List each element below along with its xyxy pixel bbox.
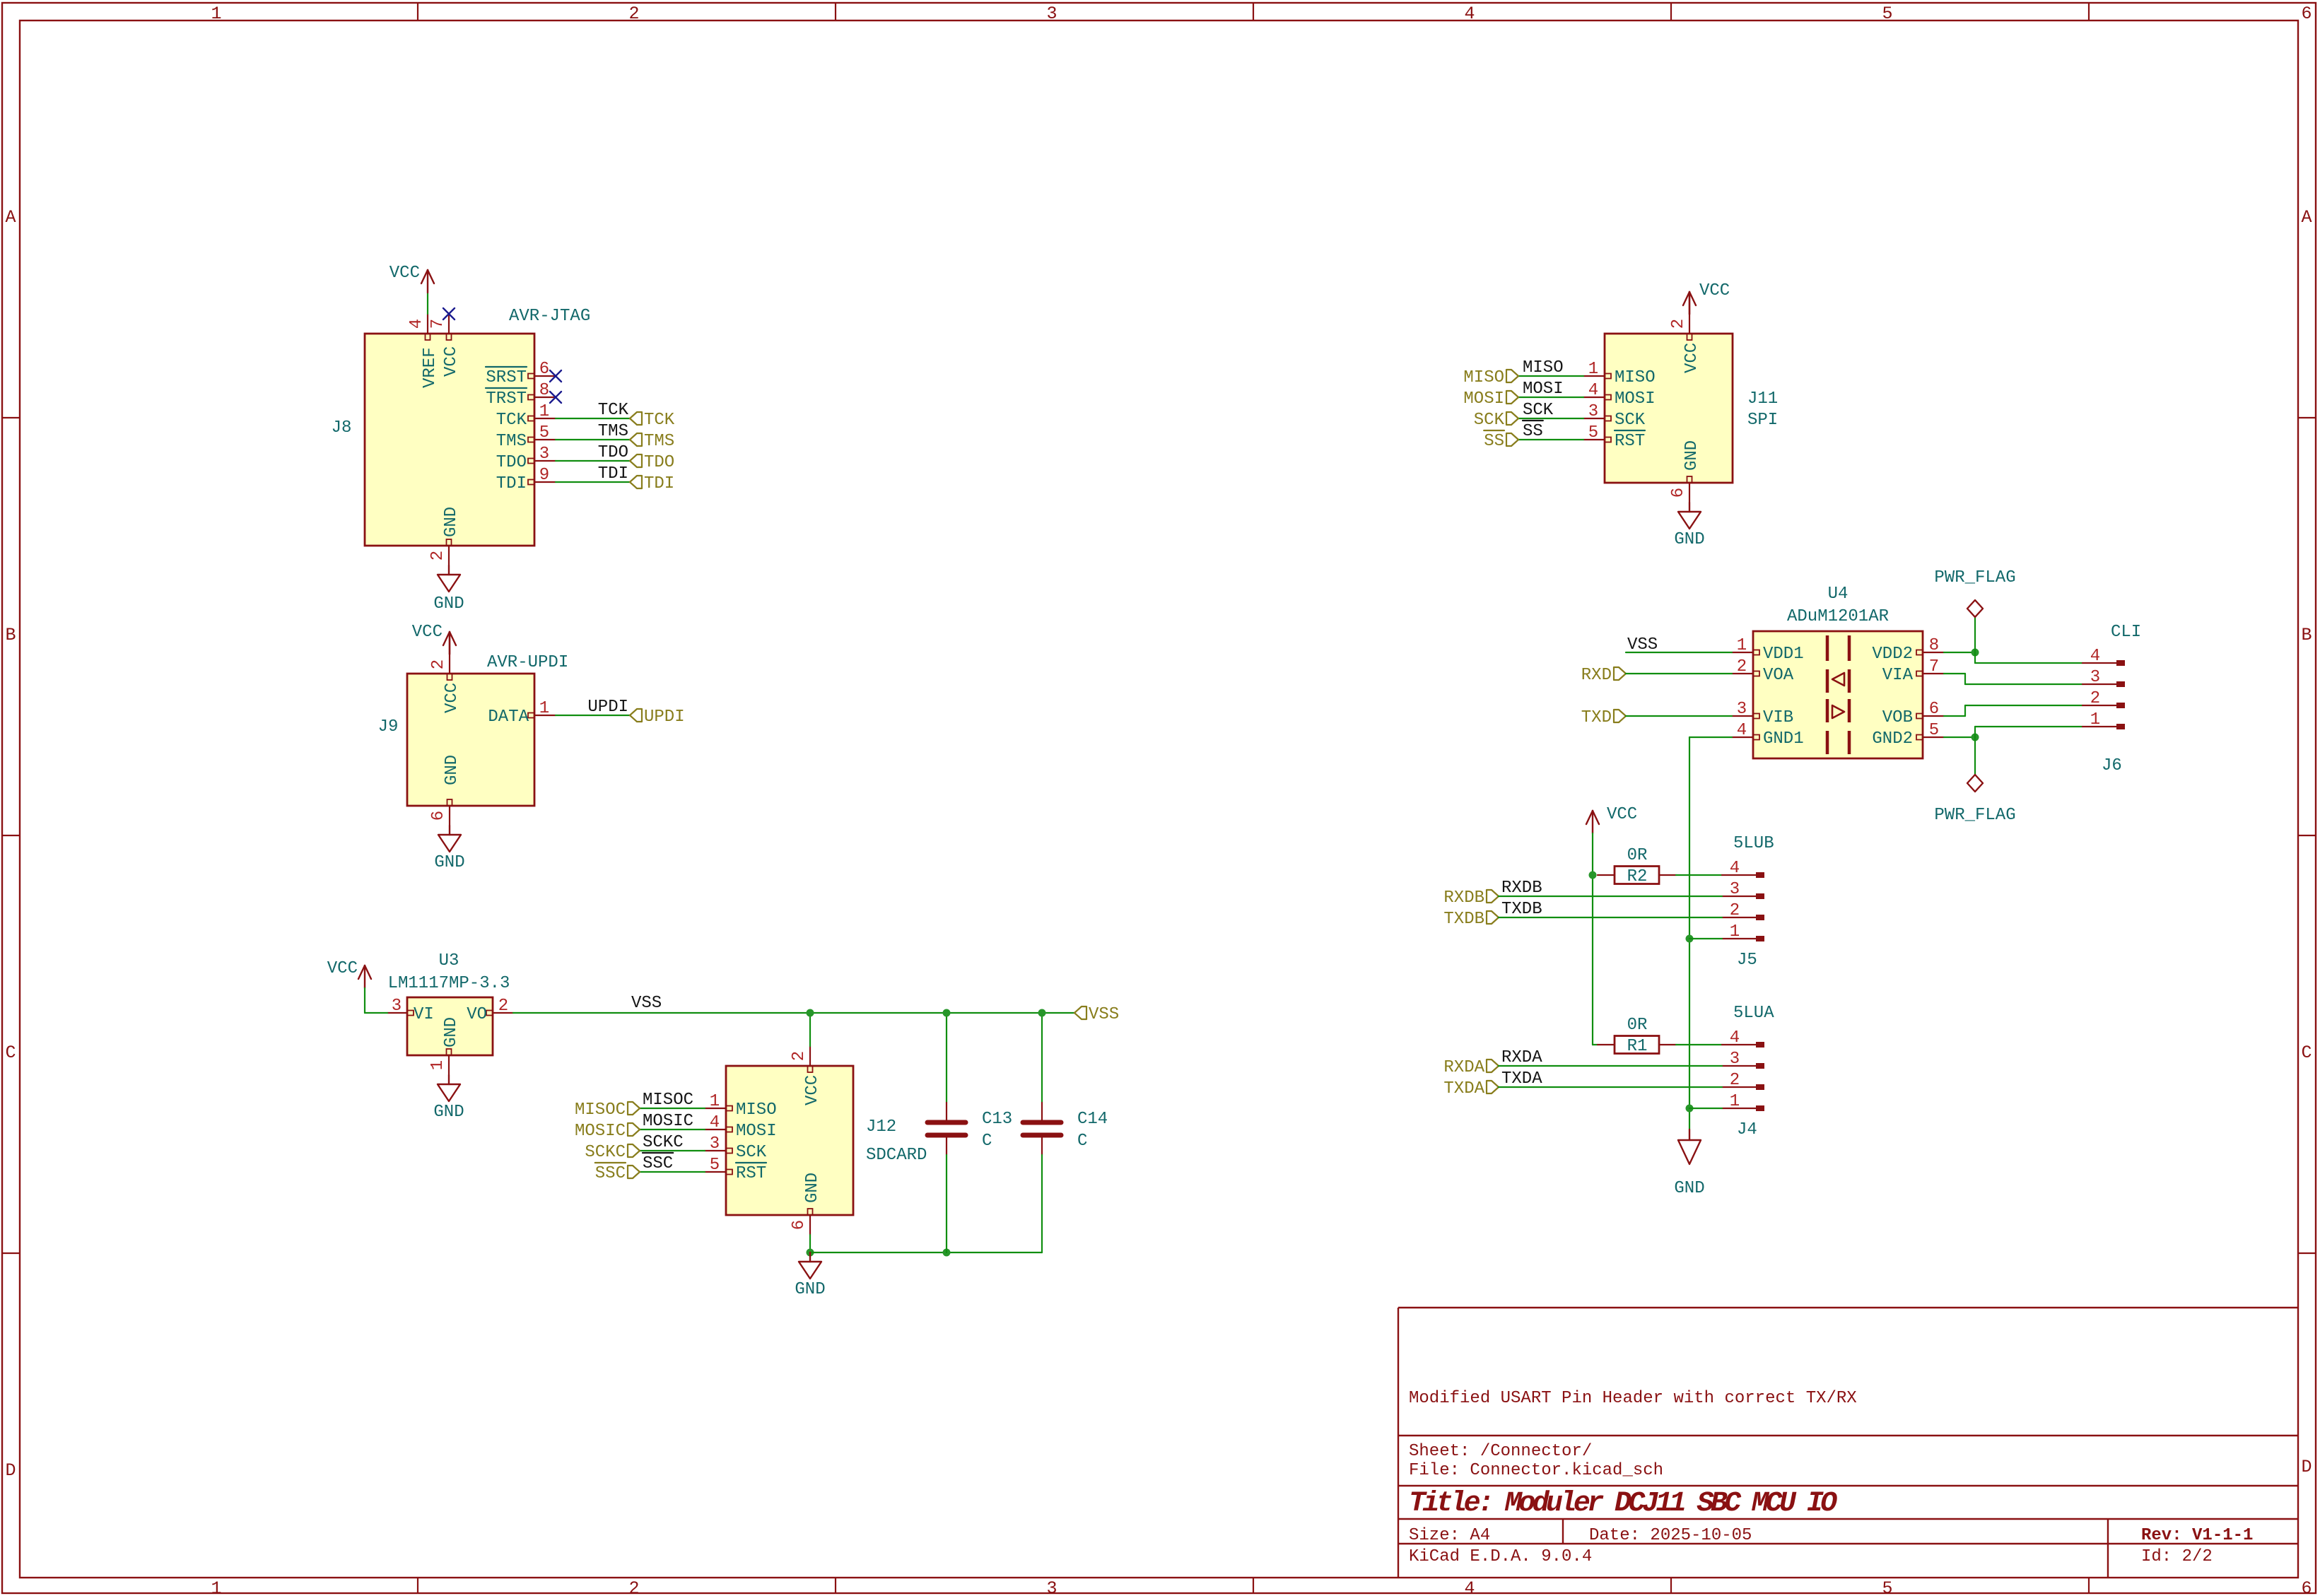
svg-text:0R: 0R	[1627, 846, 1648, 865]
U4 isolation barrier graphics	[1827, 635, 1849, 754]
svg-text:R1: R1	[1627, 1037, 1648, 1056]
svg-text:TXDA: TXDA	[1501, 1069, 1542, 1089]
global label SCK (J11)	[1506, 412, 1518, 425]
connector J8 AVR-JTAG	[332, 307, 591, 546]
svg-text:VDD2: VDD2	[1872, 645, 1913, 664]
svg-text:MISO: MISO	[1463, 368, 1504, 387]
J11 pin 6 GND	[1669, 440, 1701, 503]
svg-text:1: 1	[428, 1060, 447, 1070]
power flag symbol (bottom)	[1934, 737, 2015, 825]
global label MISO (J11)	[1506, 370, 1518, 382]
svg-text:TXD: TXD	[1581, 708, 1612, 727]
global label RXD	[1614, 667, 1626, 680]
connector J4 5LUA	[1733, 1004, 1774, 1139]
svg-text:J12: J12	[866, 1117, 896, 1137]
title block	[1398, 1308, 2298, 1578]
svg-text:TDI: TDI	[496, 474, 527, 493]
svg-text:7: 7	[1929, 657, 1939, 676]
ground symbol (J4 rail)	[1674, 1129, 1704, 1198]
svg-text:D: D	[2301, 1457, 2312, 1477]
svg-text:SCKC: SCKC	[585, 1143, 626, 1162]
svg-text:TCK: TCK	[644, 411, 675, 430]
svg-text:1: 1	[1588, 360, 1598, 379]
svg-text:3: 3	[1046, 1578, 1057, 1596]
U3 pin 3 VI	[387, 997, 434, 1024]
svg-text:GND: GND	[433, 1103, 464, 1122]
global label TXDA	[1487, 1081, 1499, 1093]
J4 pin 3	[1722, 1050, 1764, 1069]
wire U4 GND1 down	[1689, 737, 1732, 738]
svg-text:U4: U4	[1828, 585, 1849, 604]
svg-text:VIA: VIA	[1882, 666, 1914, 685]
svg-text:VCC: VCC	[442, 346, 461, 377]
svg-text:1: 1	[211, 1578, 221, 1596]
svg-text:5: 5	[1882, 1578, 1892, 1596]
svg-text:SS: SS	[1523, 422, 1543, 441]
U4 pin 3 VIB	[1732, 700, 1793, 727]
svg-text:3: 3	[1588, 402, 1598, 421]
svg-text:1: 1	[2090, 710, 2100, 729]
svg-text:2: 2	[628, 1578, 639, 1596]
svg-text:C14: C14	[1077, 1110, 1108, 1129]
J11 pin 3 SCK	[1583, 402, 1646, 430]
svg-text:5: 5	[1588, 423, 1598, 442]
svg-text:TMS: TMS	[598, 422, 628, 441]
global label TDI	[630, 476, 642, 488]
svg-text:4: 4	[2090, 647, 2100, 666]
svg-text:TDI: TDI	[598, 464, 628, 483]
J11 pin 4 MOSI	[1583, 381, 1656, 409]
junction VSS / J12	[807, 1009, 814, 1017]
svg-text:Size: A4: Size: A4	[1409, 1526, 1490, 1545]
global label MOSI (J11)	[1506, 391, 1518, 404]
svg-text:3: 3	[392, 997, 402, 1016]
svg-text:1: 1	[211, 4, 221, 24]
svg-text:1: 1	[710, 1092, 720, 1111]
svg-text:LM1117MP-3.3: LM1117MP-3.3	[388, 974, 510, 993]
no-connect X on J8 pin 7	[443, 308, 455, 319]
J6 pin 4	[2082, 647, 2125, 666]
svg-text:A: A	[2301, 207, 2312, 228]
wire TXDA	[1499, 1086, 1722, 1088]
svg-text:Modified USART Pin Header with: Modified USART Pin Header with correct T…	[1409, 1389, 1857, 1408]
svg-text:2: 2	[1730, 901, 1740, 920]
hier label SCKC	[628, 1144, 640, 1157]
svg-text:GND: GND	[1682, 440, 1701, 471]
power symbol VCC (U3)	[327, 959, 371, 988]
svg-text:TXDB: TXDB	[1443, 910, 1484, 929]
svg-text:C: C	[982, 1132, 992, 1151]
svg-text:CLI: CLI	[2111, 623, 2141, 642]
svg-text:ADuM1201AR: ADuM1201AR	[1787, 607, 1889, 626]
wire TDO	[556, 460, 630, 462]
svg-text:B: B	[5, 625, 16, 645]
svg-text:MOSI: MOSI	[1463, 389, 1504, 409]
svg-text:File: Connector.kicad_sch: File: Connector.kicad_sch	[1409, 1461, 1663, 1480]
svg-text:PWR_FLAG: PWR_FLAG	[1934, 568, 2015, 587]
svg-text:VSS: VSS	[1089, 1005, 1119, 1024]
J12 pin 6 GND	[790, 1173, 822, 1235]
svg-text:SSC: SSC	[595, 1164, 626, 1183]
svg-text:5: 5	[1929, 721, 1939, 740]
svg-text:9: 9	[539, 466, 549, 485]
wire MOSIC	[640, 1129, 705, 1130]
junction VDD2 / PWR_FLAG	[1972, 649, 1979, 657]
J6 pin 2	[2082, 689, 2125, 708]
wire GND bus to C13 C14	[810, 1252, 1042, 1253]
svg-text:TDO: TDO	[644, 453, 674, 472]
wire GND2 to junction	[1944, 737, 1975, 738]
svg-text:MISO: MISO	[1615, 368, 1656, 387]
svg-text:2: 2	[628, 4, 639, 24]
J4 pin 2	[1722, 1071, 1764, 1090]
svg-text:1: 1	[1730, 922, 1740, 941]
junction GND / J5 pin 1	[1686, 935, 1694, 943]
svg-text:TXDB: TXDB	[1501, 900, 1542, 919]
connector J5 5LUB	[1733, 834, 1774, 970]
svg-text:Sheet: /Connector/: Sheet: /Connector/	[1409, 1442, 1592, 1461]
svg-text:SS: SS	[1484, 432, 1504, 451]
wire TMS	[556, 439, 630, 440]
global label RXDB	[1487, 890, 1499, 903]
svg-text:3: 3	[710, 1134, 720, 1154]
svg-text:C: C	[2301, 1043, 2312, 1063]
svg-text:TMS: TMS	[496, 432, 527, 451]
J8 pin 2 GND	[428, 507, 461, 565]
svg-text:2: 2	[790, 1051, 809, 1061]
svg-text:SCK: SCK	[1523, 401, 1554, 420]
capacitor C14	[1023, 1013, 1108, 1252]
svg-text:TCK: TCK	[598, 401, 629, 420]
svg-text:VO: VO	[467, 1005, 487, 1024]
svg-text:B: B	[2301, 625, 2312, 645]
regulator U3 LM1117MP-3.3	[388, 951, 510, 1055]
svg-text:5LUA: 5LUA	[1733, 1004, 1774, 1023]
svg-text:SDCARD: SDCARD	[866, 1146, 927, 1165]
svg-text:MISOC: MISOC	[575, 1101, 626, 1120]
svg-text:SRST: SRST	[486, 368, 527, 387]
U4 pin 8 VDD2	[1872, 636, 1944, 664]
J5 pin 4	[1722, 859, 1764, 878]
svg-text:RXDA: RXDA	[1443, 1058, 1484, 1077]
wire TXDB	[1499, 917, 1722, 918]
wire VSS to U4 pin 1	[1626, 652, 1732, 653]
power symbol VCC (J8)	[389, 264, 434, 293]
svg-text:D: D	[5, 1460, 16, 1481]
svg-text:TXDA: TXDA	[1443, 1079, 1484, 1098]
power flag symbol (top)	[1934, 568, 2015, 652]
svg-text:VREF: VREF	[421, 347, 440, 388]
svg-text:C: C	[5, 1043, 16, 1063]
svg-text:Rev: V1-1-1: Rev: V1-1-1	[2141, 1526, 2253, 1545]
svg-text:Title: Moduler DCJ11 SBC MCU I: Title: Moduler DCJ11 SBC MCU IO	[1409, 1488, 1837, 1520]
J8 pin 6 SRST (no connect)	[486, 360, 556, 387]
svg-text:6: 6	[429, 811, 448, 821]
svg-text:2: 2	[498, 997, 508, 1016]
svg-text:U3: U3	[439, 951, 459, 970]
svg-text:J6: J6	[2102, 756, 2122, 775]
wire R2 to J5 pin 4	[1676, 874, 1722, 876]
power symbol VCC (rail)	[1586, 805, 1637, 833]
svg-text:RXDB: RXDB	[1501, 879, 1542, 898]
hier label MOSIC	[628, 1123, 640, 1136]
svg-text:UPDI: UPDI	[644, 708, 685, 727]
connector J6 CLI	[2102, 623, 2141, 775]
hier label MISOC	[628, 1102, 640, 1115]
svg-text:J4: J4	[1737, 1120, 1757, 1139]
no-connect X on J8 pin 6	[550, 370, 561, 382]
svg-text:MOSI: MOSI	[1615, 389, 1656, 409]
wire GND2 to J6 pin 1	[1974, 727, 1976, 737]
junction VSS / C13	[943, 1009, 951, 1017]
J8 pin 3 TDO	[496, 445, 556, 472]
svg-text:GND: GND	[442, 1017, 461, 1048]
svg-text:8: 8	[1929, 636, 1939, 655]
no-connect X on J8 pin 8	[550, 392, 561, 403]
svg-text:KiCad E.D.A. 9.0.4: KiCad E.D.A. 9.0.4	[1409, 1547, 1592, 1566]
J4 pin 1	[1722, 1092, 1764, 1111]
svg-text:4: 4	[1730, 859, 1740, 878]
wire TXD	[1626, 715, 1732, 717]
U4 pin 6 VOB	[1882, 700, 1944, 727]
svg-text:VCC: VCC	[412, 623, 443, 642]
svg-text:3: 3	[539, 445, 549, 464]
wire R1 to J4 pin 4	[1676, 1044, 1722, 1045]
svg-text:2: 2	[1669, 319, 1688, 329]
svg-text:4: 4	[1737, 721, 1747, 740]
global label UPDI	[630, 709, 642, 722]
wire SSC	[640, 1171, 705, 1173]
wire MISO (J11)	[1518, 375, 1583, 377]
wire RXDA	[1499, 1065, 1722, 1067]
ground symbol (J11)	[1674, 503, 1704, 549]
ground symbol (J8)	[433, 565, 464, 614]
J6 pin 1	[2082, 710, 2125, 729]
svg-text:3: 3	[1730, 1050, 1740, 1069]
junction GND2 / PWR_FLAG	[1972, 734, 1979, 741]
svg-text:1: 1	[1737, 636, 1747, 655]
J8 pin 9 TDI	[496, 466, 556, 493]
svg-text:1: 1	[539, 402, 549, 421]
ground symbol (J12)	[795, 1252, 825, 1299]
wire TDI	[556, 481, 630, 483]
wire VCC to U3 VI	[364, 988, 365, 1013]
wire VCC to J8 pin 4	[427, 293, 428, 314]
U4 pin 1 VDD1	[1732, 636, 1804, 664]
wire RXD	[1626, 673, 1732, 674]
svg-text:4: 4	[1588, 381, 1598, 400]
wire TCK	[556, 418, 630, 419]
svg-text:6: 6	[2301, 1578, 2312, 1596]
svg-text:7: 7	[428, 319, 447, 329]
J11 pin 1 MISO	[1583, 360, 1656, 387]
svg-text:J8: J8	[332, 418, 352, 438]
J9 pin 1 DATA	[488, 699, 556, 727]
J12 pin 3 SCK	[705, 1134, 767, 1162]
svg-text:5: 5	[710, 1156, 720, 1175]
J12 pin 1 MISO	[705, 1092, 777, 1120]
U4 pin 4 GND1	[1732, 721, 1804, 749]
J8 pin 8 TRST (no connect)	[486, 381, 556, 409]
svg-text:MOSIC: MOSIC	[643, 1112, 693, 1131]
svg-text:R2: R2	[1627, 867, 1648, 886]
svg-text:TDO: TDO	[598, 443, 628, 462]
J9 pin 6 GND	[429, 755, 462, 826]
J12 pin 5 RST	[705, 1156, 766, 1183]
svg-text:VDD1: VDD1	[1763, 645, 1804, 664]
svg-text:TDI: TDI	[644, 474, 674, 493]
connector J9 AVR-UPDI	[378, 653, 569, 806]
svg-text:VI: VI	[414, 1005, 434, 1024]
wire UPDI	[556, 715, 630, 716]
junction J12 GND	[807, 1249, 814, 1257]
connector J12 SDCARD	[726, 1066, 927, 1215]
capacitor C13	[927, 1013, 1012, 1252]
svg-text:PWR_FLAG: PWR_FLAG	[1934, 806, 2015, 825]
global label TDO	[630, 454, 642, 467]
wire SS (J11)	[1518, 439, 1583, 440]
svg-text:1: 1	[1730, 1092, 1740, 1111]
U3 pin 1 GND	[428, 1017, 461, 1075]
svg-text:3: 3	[2090, 668, 2100, 687]
svg-text:8: 8	[539, 381, 549, 400]
resistor R1 0R	[1598, 1016, 1676, 1056]
svg-text:SPI: SPI	[1747, 411, 1778, 430]
J12 pin 2 VCC	[790, 1046, 822, 1105]
svg-text:VOA: VOA	[1763, 666, 1794, 685]
svg-text:C13: C13	[982, 1110, 1012, 1129]
svg-text:SCK: SCK	[1615, 411, 1646, 430]
svg-text:4: 4	[1730, 1028, 1740, 1048]
global label RXDA	[1487, 1060, 1499, 1072]
svg-text:4: 4	[1464, 1578, 1475, 1596]
svg-text:RXDA: RXDA	[1501, 1048, 1542, 1067]
wire SCKC	[640, 1150, 705, 1151]
svg-text:GND: GND	[795, 1280, 825, 1299]
wire VOB to J6 pin 2	[1944, 715, 1965, 717]
J12 pin 4 MOSI	[705, 1113, 777, 1141]
svg-text:Date: 2025-10-05: Date: 2025-10-05	[1589, 1526, 1752, 1545]
svg-text:VCC: VCC	[1607, 805, 1637, 824]
resistor R2 0R	[1598, 846, 1676, 886]
svg-text:GND: GND	[433, 594, 464, 614]
isolator U4 ADuM1201AR	[1753, 585, 1923, 758]
wire VIA to J6 pin 3	[1944, 673, 1965, 674]
svg-text:6: 6	[2301, 4, 2312, 24]
svg-text:4: 4	[1464, 4, 1475, 24]
svg-text:GND: GND	[1674, 530, 1704, 549]
connector J11 SPI	[1605, 334, 1778, 483]
svg-text:MOSIC: MOSIC	[575, 1122, 626, 1141]
svg-text:VSS: VSS	[1627, 635, 1658, 655]
global label TXD	[1614, 710, 1626, 722]
svg-text:RXDB: RXDB	[1443, 888, 1484, 908]
svg-text:RST: RST	[1615, 432, 1645, 451]
svg-text:TDO: TDO	[496, 453, 527, 472]
svg-text:2: 2	[1730, 1071, 1740, 1090]
power symbol VCC (J9)	[412, 623, 456, 655]
J8 pin 1 TCK	[496, 402, 556, 430]
J11 pin 5 RST	[1583, 423, 1645, 451]
svg-text:VOB: VOB	[1882, 708, 1913, 727]
svg-text:4: 4	[407, 319, 426, 329]
svg-text:UPDI: UPDI	[587, 698, 628, 717]
svg-text:VIB: VIB	[1763, 708, 1793, 727]
svg-text:6: 6	[539, 360, 549, 379]
global label SS (J11)	[1506, 433, 1518, 446]
svg-text:MOSI: MOSI	[1523, 380, 1564, 399]
svg-text:SCK: SCK	[736, 1143, 767, 1162]
wire J12 GND down	[809, 1235, 811, 1252]
svg-text:AVR-JTAG: AVR-JTAG	[509, 307, 590, 326]
svg-text:2: 2	[428, 551, 447, 561]
svg-text:3: 3	[1730, 880, 1740, 899]
svg-text:VCC: VCC	[1682, 343, 1701, 373]
svg-text:1: 1	[539, 699, 549, 718]
junction VCC / R2	[1589, 872, 1597, 879]
J6 pin 3	[2082, 668, 2125, 687]
J5 pin 1	[1722, 922, 1764, 941]
svg-text:0R: 0R	[1627, 1016, 1648, 1035]
svg-text:MOSI: MOSI	[736, 1122, 777, 1141]
svg-text:6: 6	[790, 1220, 809, 1230]
svg-text:2: 2	[2090, 689, 2100, 708]
svg-text:A: A	[5, 207, 16, 228]
wire GND to J4 pin 1	[1689, 1108, 1722, 1109]
wire VSS down to J12 VCC	[809, 1013, 811, 1046]
ground symbol (J9)	[434, 826, 464, 872]
J8 pin 5 TMS	[496, 423, 556, 451]
svg-text:J11: J11	[1747, 389, 1778, 409]
svg-text:GND: GND	[443, 755, 462, 785]
svg-text:MISO: MISO	[736, 1101, 777, 1120]
svg-text:AVR-UPDI: AVR-UPDI	[487, 653, 568, 672]
J11 pin 2 VCC	[1669, 314, 1701, 373]
J8 pin 7 VCC (no connect)	[428, 314, 461, 377]
J4 pin 4	[1722, 1028, 1764, 1048]
junction C13 GND	[943, 1249, 951, 1257]
svg-text:VCC: VCC	[443, 683, 462, 713]
svg-text:SCK: SCK	[1474, 411, 1505, 430]
svg-text:TRST: TRST	[486, 389, 527, 409]
ground symbol (U3)	[433, 1075, 464, 1122]
junction GND / J4 pin 1	[1686, 1105, 1694, 1113]
svg-text:RST: RST	[736, 1164, 766, 1183]
wire MISOC	[640, 1108, 705, 1109]
wire VDD2 to J6 pin 4	[1974, 652, 1976, 663]
U4 pin 5 GND2	[1872, 721, 1944, 749]
svg-text:6: 6	[1929, 700, 1939, 719]
wire VCC rail down	[1592, 833, 1593, 875]
junction VSS / C14	[1038, 1009, 1046, 1017]
global label TXDB	[1487, 911, 1499, 924]
svg-text:MISOC: MISOC	[643, 1091, 693, 1110]
svg-text:GND: GND	[442, 507, 461, 537]
svg-text:2: 2	[429, 659, 448, 669]
svg-text:Id: 2/2: Id: 2/2	[2141, 1547, 2213, 1566]
svg-text:TMS: TMS	[644, 432, 674, 451]
svg-text:RXD: RXD	[1581, 666, 1612, 685]
svg-text:GND1: GND1	[1763, 729, 1804, 749]
global label TMS	[630, 433, 642, 446]
J5 pin 2	[1722, 901, 1764, 920]
wire RXDB	[1499, 896, 1722, 897]
svg-text:5: 5	[539, 423, 549, 442]
wire VSS from U3 VO	[513, 1012, 1074, 1014]
svg-text:C: C	[1077, 1132, 1087, 1151]
J9 pin 2 VCC	[429, 654, 462, 713]
svg-text:VCC: VCC	[1699, 281, 1730, 300]
